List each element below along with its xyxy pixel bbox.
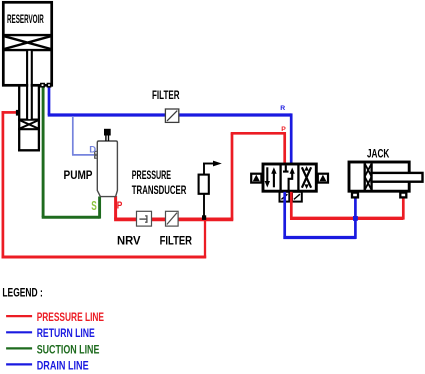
jack rod: [372, 173, 423, 182]
pipe reservoir to strainer: [27, 51, 32, 120]
wire: drain line to pump D port: [72, 116, 95, 155]
pump P1 body: [97, 141, 117, 197]
directional control valve DCV body: [263, 164, 316, 191]
reservoir: [3, 2, 51, 85]
svg-text:JACK: JACK: [367, 146, 390, 160]
svg-text:LEGEND :: LEGEND :: [2, 286, 42, 300]
legend return line sample: [6, 331, 32, 333]
junction: blue over red crossing dot: [353, 216, 358, 221]
svg-text:P: P: [281, 126, 286, 133]
DCV drain box B: [292, 192, 302, 202]
wire: blue line valve to jack: [283, 192, 356, 239]
DCV left cell arrows: [265, 167, 277, 187]
svg-text:P: P: [117, 200, 123, 212]
pressure transducer PT: [199, 161, 222, 217]
wire: blue return line reservoir to valve: [48, 87, 292, 165]
svg-text:S: S: [91, 199, 97, 213]
pump D port notches: [95, 151, 97, 158]
pump motor: [104, 129, 111, 136]
DCV right cell crossed arrows: [302, 166, 311, 189]
svg-text:NRV: NRV: [117, 234, 141, 248]
svg-text:PUMP: PUMP: [64, 168, 93, 182]
DCV drain box A: [280, 192, 290, 202]
wire: green suction line reservoir to pump: [42, 87, 100, 219]
jack cylinder body: [349, 162, 409, 191]
pump motor stem: [106, 136, 109, 142]
svg-text:SUCTION LINE: SUCTION LINE: [37, 342, 100, 356]
svg-text:D: D: [89, 145, 96, 156]
reservoir return port: [47, 84, 50, 87]
svg-text:RESERVOIR: RESERVOIR: [7, 14, 44, 26]
svg-text:DRAIN LINE: DRAIN LINE: [37, 359, 89, 373]
wire: red pressure line valve to jack: [290, 192, 403, 220]
svg-text:R: R: [280, 105, 285, 112]
svg-text:PRESSURE LINE: PRESSURE LINE: [37, 310, 104, 324]
jack left port foot: [352, 193, 358, 198]
svg-text:TRANSDUCER: TRANSDUCER: [132, 183, 187, 197]
DCV centre cell symbol: [283, 166, 295, 191]
DCV left solenoid: [251, 174, 261, 183]
svg-text:RETURN LINE: RETURN LINE: [37, 326, 95, 340]
jack right port foot: [400, 193, 406, 198]
legend suction line sample: [6, 347, 32, 349]
svg-text:FILTER: FILTER: [152, 88, 180, 102]
jack piston: [365, 164, 372, 191]
wire: red inlet line to strainer: [2, 111, 207, 258]
legend drain line sample: [6, 363, 32, 365]
DCV right solenoid: [318, 174, 328, 183]
junction: transducer tap on pressure line: [202, 215, 206, 220]
filter F1 (return line): [165, 109, 178, 122]
reservoir suction port: [41, 84, 44, 87]
legend pressure line sample: [6, 315, 32, 317]
svg-text:FILTER: FILTER: [160, 234, 192, 248]
svg-text:PRESSURE: PRESSURE: [132, 168, 171, 182]
suction strainer housing: [18, 86, 40, 150]
wire: red pressure line pump P to valve: [114, 132, 286, 221]
filter F2 (pressure line): [166, 211, 179, 226]
check valve NRV: [137, 211, 152, 226]
strainer inlet connector: [16, 110, 20, 116]
